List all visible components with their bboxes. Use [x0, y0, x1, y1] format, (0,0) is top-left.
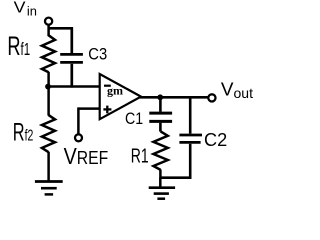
terminal Vin	[45, 18, 52, 25]
label Vin	[14, 0, 37, 18]
wire ground stem right	[159, 178, 162, 188]
label Rf2	[13, 119, 34, 146]
svg-text:Vout: Vout	[221, 79, 253, 101]
svg-text:gm: gm	[107, 83, 123, 97]
svg-text:in: in	[27, 4, 37, 19]
node output junction	[157, 94, 163, 100]
capacitor C1	[149, 97, 172, 131]
resistor Rf2	[42, 87, 55, 182]
terminal VREF	[75, 134, 82, 141]
svg-text:VREF: VREF	[64, 143, 109, 169]
wire VREF vertical	[77, 107, 80, 134]
node feedback junction	[45, 84, 51, 90]
label Vout	[221, 79, 253, 101]
label C3	[88, 46, 107, 64]
resistor Rf1	[42, 35, 55, 72]
svg-text:C1: C1	[125, 110, 143, 128]
op-amp U1 OTA	[100, 74, 141, 119]
wire Vin vertical	[47, 25, 50, 36]
svg-text:Rf2: Rf2	[13, 119, 34, 146]
ground right	[149, 188, 175, 199]
wire to op-amp inverting input	[49, 85, 101, 88]
wire R1 bottom to C2 bottom	[160, 176, 190, 179]
terminal Vout	[208, 94, 215, 101]
svg-text:Rf1: Rf1	[7, 31, 30, 62]
capacitor C3	[60, 27, 83, 88]
ground left	[35, 182, 63, 195]
svg-text:C2: C2	[204, 128, 227, 149]
wire to C3 top	[49, 27, 72, 30]
label C1	[125, 110, 143, 128]
label R1	[131, 144, 149, 167]
svg-text:V: V	[14, 0, 27, 16]
label VREF	[64, 143, 109, 169]
label C2	[204, 128, 227, 149]
capacitor C2	[179, 97, 202, 179]
wire Rf1 bottom	[47, 72, 50, 88]
svg-text:R1: R1	[131, 144, 149, 167]
resistor R1	[153, 131, 167, 179]
wire op-amp output	[140, 96, 208, 99]
svg-text:C3: C3	[88, 46, 107, 64]
wire op-amp noninverting input	[78, 107, 100, 110]
label Rf1	[7, 31, 30, 62]
